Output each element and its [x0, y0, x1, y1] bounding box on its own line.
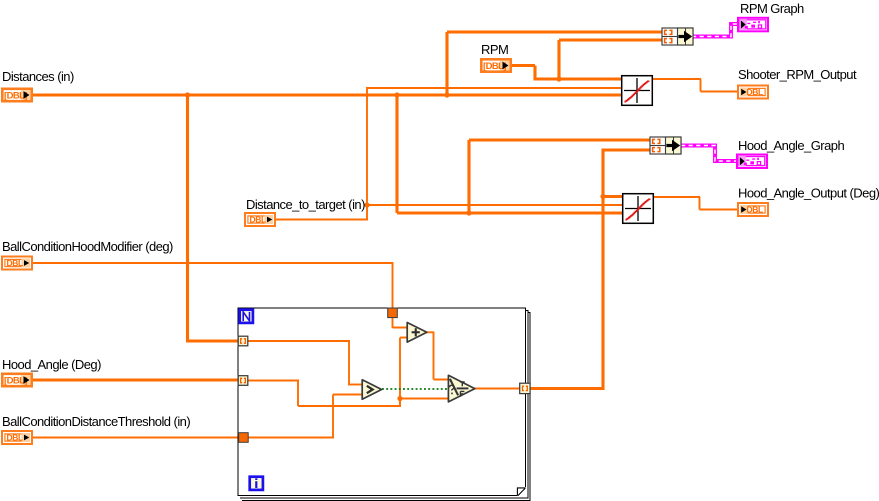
wire hood angle array to interp2: [603, 195, 623, 198]
junction Hood_Angle/select F: [397, 396, 402, 401]
tunnel BallConditionDistanceThreshold in (non-indexing): [239, 433, 249, 443]
control Distances (in) (array DBL terminal): [1, 88, 33, 103]
junction RPM/bundle1: [556, 76, 561, 81]
wire interp1 result to indicator: [701, 91, 739, 93]
junction Distances/bundle1: [444, 92, 449, 97]
wire Hood_Angle inside loop down: [297, 381, 299, 407]
wire Distances element to greater: [247, 340, 350, 342]
wire RPM graph cluster: [692, 24, 738, 37]
wire BallConditionDistanceThreshold inside loop: [248, 437, 334, 439]
wire RPM to interp1: [535, 77, 623, 80]
svg-text:DBL: DBL: [250, 215, 266, 225]
wire Distances branch to bundle2: [469, 138, 652, 141]
wire RPM elbow: [533, 66, 536, 81]
tunnel Hood_Angle in (auto-indexing): [238, 376, 248, 386]
wire BallConditionHoodModifier to add: [393, 327, 410, 329]
wire BallConditionDistanceThreshold to greater: [333, 394, 364, 396]
wire Distance_to_target riser: [366, 87, 368, 221]
svg-text:Distances (in): Distances (in): [2, 69, 74, 84]
for loop frame (stacked layers): [240, 311, 530, 501]
indicator Hood_Angle_Graph (graph cluster terminal): [736, 154, 768, 170]
control BallConditionDistanceThreshold (in) (DBL terminal): [1, 430, 33, 445]
wire Distances main: [32, 93, 623, 96]
wire BallConditionDistanceThreshold riser: [332, 395, 334, 438]
wire Distance_to_target to interp2: [367, 204, 623, 206]
wire add result to select T: [434, 379, 451, 381]
svg-text:Shooter_RPM_Output: Shooter_RPM_Output: [738, 67, 857, 82]
wire Hood_Angle inside loop: [247, 380, 299, 382]
wire Hood_Angle branch to select F: [400, 398, 450, 400]
wire BallConditionHoodModifier inside loop: [392, 317, 394, 328]
wire Distances to loop tunnel1: [186, 95, 189, 341]
wire BallConditionHoodModifier out: [32, 262, 394, 264]
control Distance_to_target (in) (DBL terminal): [244, 212, 276, 227]
wire add result: [426, 331, 434, 333]
svg-text:DBL: DBL: [747, 205, 763, 215]
wire interp2 result: [653, 196, 700, 198]
wire RPM branch to bundle1: [557, 40, 560, 81]
wire Distances element to greater input: [349, 384, 364, 386]
wire Distances branch to interp2: [395, 95, 398, 213]
wire Distance_to_target to interp1: [367, 87, 622, 89]
wire Hood_Angle inside loop across: [298, 405, 401, 407]
svg-text:BallConditionDistanceThreshold: BallConditionDistanceThreshold (in): [2, 414, 190, 429]
for loop border: [238, 308, 526, 496]
svg-text:RPM Graph: RPM Graph: [740, 1, 804, 16]
bundle node Hood_Angle graph bundle: [650, 137, 681, 154]
tunnel Distances in (auto-indexing): [238, 336, 248, 346]
wire RPM branch to bundle1: [559, 38, 664, 41]
wire BallConditionDistanceThreshold out: [31, 437, 240, 439]
wire Distance_to_target out: [275, 219, 368, 221]
svg-text:Hood_Angle (Deg): Hood_Angle (Deg): [2, 357, 101, 372]
wire Distances element riser: [348, 341, 350, 386]
wire BallConditionHoodModifier to loop: [392, 263, 394, 309]
wire Hood_Angle riser to add: [399, 338, 401, 408]
control Hood_Angle (Deg) (array DBL terminal): [1, 373, 33, 388]
junction Distances/bundle2: [466, 210, 471, 215]
wire Distances branch to bundle1: [447, 30, 664, 33]
svg-text:DBL: DBL: [7, 258, 23, 268]
wire select result to tunnel: [474, 388, 520, 390]
wire Distances to loop tunnel1: [186, 339, 239, 342]
control RPM (array DBL terminal): [480, 58, 512, 73]
wire hood angle array to bundle2: [603, 148, 652, 151]
svg-text:Hood_Angle_Output (Deg): Hood_Angle_Output (Deg): [738, 186, 879, 201]
junction Distances/tunnel1: [185, 92, 190, 97]
interpolate node interp1 (RPM) (Interpolate 1D VI): [622, 76, 653, 106]
bundle node RPM graph bundle: [662, 28, 693, 45]
svg-text:Distance_to_target (in): Distance_to_target (in): [246, 197, 365, 212]
svg-text:Hood_Angle_Graph: Hood_Angle_Graph: [738, 138, 844, 153]
svg-text:DBL: DBL: [7, 433, 23, 443]
wire Distances branch to bundle2: [467, 140, 470, 215]
wire comparison result (boolean): [382, 388, 449, 390]
wire add result down: [433, 332, 435, 380]
control BallConditionHoodModifier (deg) (DBL terminal): [1, 256, 33, 271]
svg-text:RPM: RPM: [481, 42, 508, 57]
svg-text:BallConditionHoodModifier (deg: BallConditionHoodModifier (deg): [2, 239, 173, 254]
junction hood array/interp2: [600, 194, 605, 199]
wire interp2 result down: [699, 197, 701, 210]
tunnel hood angle array out (auto-indexing): [520, 383, 530, 393]
for loop count terminal N: [240, 310, 253, 323]
interpolate node interp2 (Hood angle) (Interpolate 1D VI): [623, 194, 654, 224]
tunnel BallConditionHoodModifier in (non-indexing): [388, 308, 398, 318]
wire interp1 result: [652, 78, 701, 80]
wire Distances branch to bundle1: [445, 32, 448, 97]
wire Distances branch to interp2: [397, 211, 623, 214]
wire RPM out: [511, 64, 535, 67]
junction Distance_to_target/interp2: [364, 202, 369, 207]
indicator Hood_Angle_Output (Deg) (DBL terminal): [737, 202, 769, 217]
for loop corner fold: [517, 487, 526, 496]
wire Hood_Angle graph cluster: [681, 146, 737, 162]
indicator RPM Graph (graph cluster terminal): [737, 17, 769, 33]
greater node >: [362, 380, 381, 400]
wire interp2 result to indicator: [700, 209, 739, 211]
wire Hood_Angle to add: [400, 337, 409, 339]
wire hood angle array riser: [601, 149, 604, 391]
select node: [448, 375, 474, 402]
add node +: [407, 323, 427, 343]
indicator Shooter_RPM_Output (DBL terminal): [737, 85, 769, 100]
wire hood angle array out of loop: [530, 387, 605, 390]
wire Hood_Angle out: [31, 378, 239, 381]
svg-text:DBL: DBL: [747, 87, 763, 97]
wire interp1 result down: [700, 79, 702, 92]
for loop iteration terminal i: [250, 477, 263, 490]
junction Distances/interp2: [394, 92, 399, 97]
